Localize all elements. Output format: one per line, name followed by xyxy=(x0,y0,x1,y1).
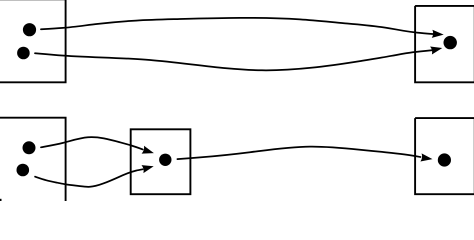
box set C (bottom-right) xyxy=(415,118,474,194)
arrow h (b -> c) xyxy=(177,147,420,160)
dot in set C (top) xyxy=(444,36,457,49)
box set C (top-right) xyxy=(415,6,474,82)
dot in set C (bottom) xyxy=(438,153,451,166)
dot a1 in set A (bottom) xyxy=(23,141,36,154)
dot in set B (middle) xyxy=(159,154,171,166)
stray mark bottom-left (cropped label fragment) xyxy=(0,199,2,201)
box set A (top-left) xyxy=(0,0,66,82)
box set B (bottom-middle) xyxy=(131,129,191,194)
dot a2 in set A xyxy=(17,47,30,60)
box set A (bottom-left) xyxy=(0,118,66,202)
arrow g (bottom a2 -> b) xyxy=(35,169,143,187)
arrow f (top a1 -> c) xyxy=(41,18,433,34)
arrow f (top a2 -> c) xyxy=(35,50,432,70)
dot a2 in set A (bottom) xyxy=(17,164,30,177)
dot a1 in set A xyxy=(23,23,36,36)
arrow g (bottom a1 -> b) xyxy=(41,137,143,149)
